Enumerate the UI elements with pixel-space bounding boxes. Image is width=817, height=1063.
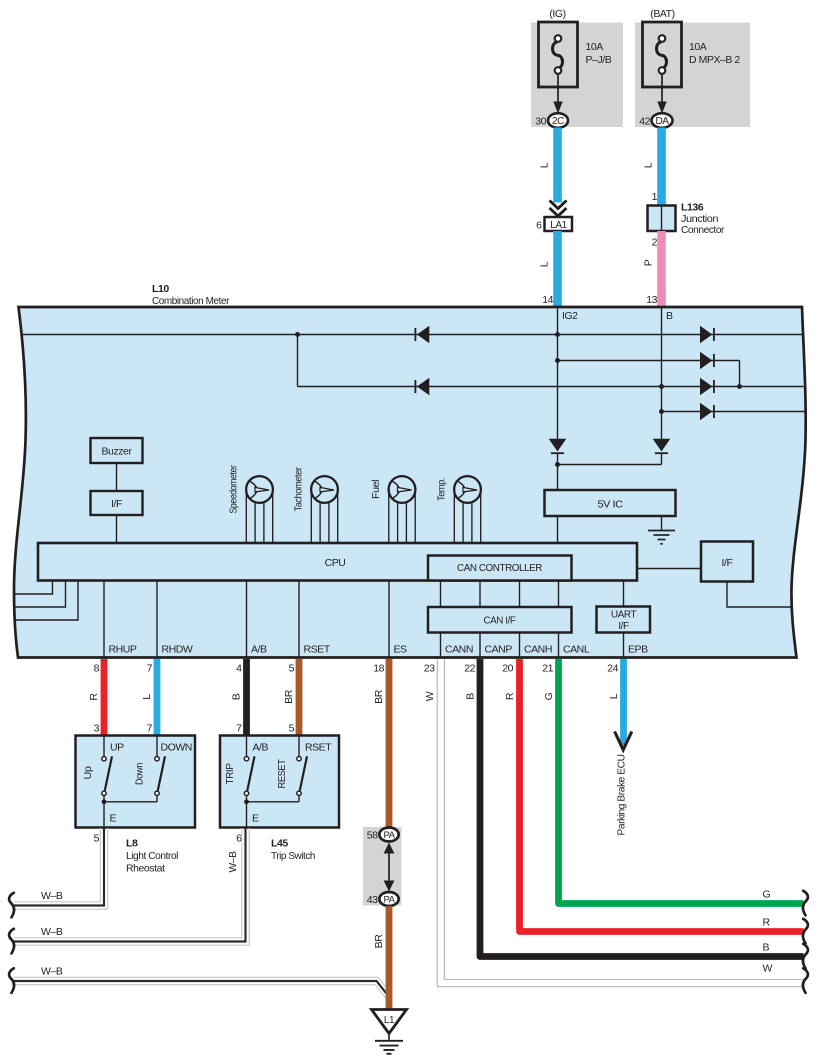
connector PA (58) oval xyxy=(379,828,398,842)
svg-text:CAN I/F: CAN I/F xyxy=(484,615,516,627)
svg-text:RESET: RESET xyxy=(276,759,288,789)
svg-text:5: 5 xyxy=(94,833,100,845)
svg-text:13: 13 xyxy=(646,294,657,306)
wire R (red) CANH to right edge xyxy=(520,659,804,932)
pin line EPB xyxy=(623,633,625,658)
wire BR (brown) PA to ground L1 xyxy=(386,906,393,1010)
node B pin line xyxy=(661,307,663,439)
wire L (blue) RHDW to L8 xyxy=(154,659,161,736)
svg-text:CPU: CPU xyxy=(325,557,346,569)
svg-text:5: 5 xyxy=(289,663,295,675)
wire W-B from L45 E to left xyxy=(14,828,242,938)
combination meter L10 body xyxy=(14,307,806,658)
svg-text:10A: 10A xyxy=(689,41,707,53)
CPU left bus wire 2 xyxy=(14,581,66,608)
svg-text:RSET: RSET xyxy=(305,742,332,754)
regulator 5V IC xyxy=(545,490,676,516)
connector 2C oval xyxy=(548,113,568,128)
switch SW3 Trip blade xyxy=(247,756,254,790)
junction row1/branch xyxy=(295,332,300,337)
svg-text:CANL: CANL xyxy=(563,644,590,656)
svg-text:E: E xyxy=(252,813,259,825)
svg-text:I/F: I/F xyxy=(111,498,122,510)
svg-text:7: 7 xyxy=(236,723,242,735)
wire fuse F2 to connector DA xyxy=(661,74,663,102)
wire W (white) CANN to right edge xyxy=(437,659,804,987)
arrow into connector DA xyxy=(657,102,666,114)
wire row 1 xyxy=(21,334,803,336)
svg-text:(IG): (IG) xyxy=(549,8,565,20)
node IG2 pin line xyxy=(557,307,559,439)
wire L (blue) from 2C to LA1 xyxy=(553,128,562,203)
diode D8 (down, B branch) xyxy=(653,439,671,452)
svg-text:W–B: W–B xyxy=(227,851,239,872)
ground point L1 triangle xyxy=(372,1010,407,1034)
continuation squiggle (W-B 2) xyxy=(9,929,14,954)
svg-text:BR: BR xyxy=(373,934,385,949)
svg-text:L8: L8 xyxy=(126,838,138,850)
L45 common wire to E xyxy=(246,796,248,829)
L8 pin UP stub xyxy=(103,736,105,757)
continuation squiggle (R) xyxy=(803,919,808,944)
svg-text:Temp.: Temp. xyxy=(437,478,448,501)
wire CPU to UART I/F xyxy=(623,581,625,607)
continuation squiggle (B) xyxy=(803,944,808,969)
svg-text:14: 14 xyxy=(542,294,553,306)
svg-text:30: 30 xyxy=(535,116,546,128)
connector DA oval xyxy=(652,113,673,128)
diode D5 (right, row 3) xyxy=(700,378,712,396)
svg-text:CANP: CANP xyxy=(485,644,513,656)
continuation squiggle (W-B 1) xyxy=(9,893,14,918)
svg-text:7: 7 xyxy=(147,663,153,675)
svg-text:L45: L45 xyxy=(271,838,288,850)
wire G (green) CANL to right edge xyxy=(559,659,804,904)
svg-text:A/B: A/B xyxy=(251,644,267,656)
pin line ES xyxy=(388,581,390,658)
CAN I/F block U3 xyxy=(428,607,572,633)
svg-text:CANN: CANN xyxy=(445,644,473,656)
svg-text:Buzzer: Buzzer xyxy=(102,446,133,458)
svg-text:2: 2 xyxy=(652,237,658,249)
svg-text:R: R xyxy=(763,917,771,929)
wire row 2 xyxy=(558,360,740,362)
svg-text:5V IC: 5V IC xyxy=(598,499,624,511)
wire row1 to row3 connector xyxy=(297,335,299,387)
ground (5V IC) xyxy=(661,516,663,530)
svg-text:PA: PA xyxy=(383,895,395,906)
wire B (black) CANP to right edge xyxy=(480,659,804,957)
svg-text:L1: L1 xyxy=(384,1015,395,1026)
pin line RSET xyxy=(298,581,300,658)
svg-text:L: L xyxy=(141,694,153,700)
continuation squiggle (W-B 3) xyxy=(9,968,14,993)
gauge M4 Temp. dial xyxy=(454,476,481,503)
wire right I/F to body edge xyxy=(727,582,793,608)
svg-text:L: L xyxy=(643,162,655,168)
diode D4 (right, row 2) xyxy=(700,352,712,370)
fuse F1 element xyxy=(553,42,563,68)
continuation squiggle (W) xyxy=(803,968,808,993)
gauge M1 Speedometer legs xyxy=(245,490,247,544)
junction block MPX-B shading (BAT) xyxy=(635,23,750,128)
svg-text:Down: Down xyxy=(134,762,146,785)
CAN controller U2 xyxy=(428,556,572,581)
chevron marks above LA1 xyxy=(550,201,567,209)
svg-text:UP: UP xyxy=(110,742,124,754)
junction block J/B shading (IG) xyxy=(531,23,623,128)
svg-text:7: 7 xyxy=(147,723,153,735)
svg-text:Tachometer: Tachometer xyxy=(294,466,305,511)
wire diode outputs join xyxy=(557,453,559,490)
svg-text:4: 4 xyxy=(236,663,242,675)
gauge M3 Fuel dial xyxy=(389,476,416,503)
L45 pin A/B stub xyxy=(246,736,248,757)
svg-text:EPB: EPB xyxy=(628,644,648,656)
svg-text:P–J/B: P–J/B xyxy=(586,54,612,66)
wire P (pink) from L136 pin 2 to meter pin 13 xyxy=(657,231,666,307)
svg-text:8: 8 xyxy=(94,663,100,675)
wire row 2 drop xyxy=(739,361,741,387)
svg-text:BR: BR xyxy=(283,689,295,704)
pin line CANL xyxy=(558,633,560,658)
svg-text:B: B xyxy=(666,310,673,322)
L8 common wire to E xyxy=(103,796,105,829)
CPU left bus wire 1 xyxy=(14,581,52,595)
svg-text:W–B: W–B xyxy=(41,890,63,902)
pin line RHUP xyxy=(103,581,105,658)
junction B/row3 xyxy=(659,384,664,389)
svg-text:B: B xyxy=(464,693,476,700)
svg-text:W–B: W–B xyxy=(41,926,63,938)
svg-text:10A: 10A xyxy=(586,41,604,53)
svg-text:I/F: I/F xyxy=(618,621,629,632)
pin line CANN xyxy=(440,633,442,658)
wire CPU to right I/F xyxy=(637,568,701,570)
pin line CANH xyxy=(519,633,521,658)
svg-text:42: 42 xyxy=(639,116,650,128)
connector PA (43) oval xyxy=(379,892,398,906)
svg-text:2C: 2C xyxy=(552,116,564,127)
gauge M3 Fuel legs xyxy=(388,490,390,544)
switch box L45 body xyxy=(220,736,339,828)
svg-text:Connector: Connector xyxy=(681,224,725,236)
junction B/row4 xyxy=(659,409,664,414)
arrow up (PA pass-through) xyxy=(384,843,395,854)
svg-text:L: L xyxy=(539,261,551,267)
svg-text:22: 22 xyxy=(464,663,475,675)
wire fuse F1 to connector 2C xyxy=(557,74,559,102)
wire R (red) RHUP to L8 xyxy=(101,659,108,736)
svg-text:L136: L136 xyxy=(681,202,704,214)
junction row2/row3 xyxy=(737,384,742,389)
svg-text:R: R xyxy=(504,692,516,700)
wires CAN controller to CAN I/F xyxy=(440,581,442,608)
CPU left bus wire 3 xyxy=(14,581,78,621)
buzzer xyxy=(91,438,143,463)
svg-text:5: 5 xyxy=(289,723,295,735)
svg-text:CAN CONTROLLER: CAN CONTROLLER xyxy=(457,562,543,574)
junction connector L136 xyxy=(648,206,676,232)
splice PA block shading xyxy=(363,827,402,906)
svg-text:G: G xyxy=(763,889,771,901)
svg-text:IG2: IG2 xyxy=(562,310,578,322)
wire B (black) A/B to L45 xyxy=(243,659,250,736)
wire L (blue) from LA1 to meter pin 14 xyxy=(553,231,562,307)
switch box L8 body xyxy=(76,736,196,828)
svg-text:I/F: I/F xyxy=(722,557,733,569)
svg-text:PA: PA xyxy=(383,830,395,841)
arrow to Parking Brake ECU xyxy=(615,732,632,750)
svg-text:Up: Up xyxy=(82,766,94,780)
pin line A/B xyxy=(246,581,248,658)
svg-text:RSET: RSET xyxy=(304,644,331,656)
wire 5V IC to CPU xyxy=(557,516,559,543)
svg-text:W: W xyxy=(424,691,436,701)
switch SW4 Reset blade xyxy=(300,756,307,790)
svg-text:6: 6 xyxy=(536,220,542,232)
svg-text:43: 43 xyxy=(367,894,378,906)
svg-text:Parking Brake ECU: Parking Brake ECU xyxy=(616,755,628,836)
ground symbol xyxy=(388,1034,390,1041)
svg-text:W: W xyxy=(763,963,773,975)
wire row 3 xyxy=(298,386,804,388)
svg-text:B: B xyxy=(763,942,770,954)
wire BR (brown) RSET to L45 xyxy=(296,659,303,736)
wire row 4 xyxy=(662,411,805,413)
svg-text:G: G xyxy=(543,692,555,700)
svg-text:3: 3 xyxy=(94,723,100,735)
svg-text:18: 18 xyxy=(373,663,384,675)
wire L (blue) from DA to L136 pin 1 xyxy=(657,128,666,206)
continuation squiggle (G) xyxy=(803,891,808,916)
svg-text:6: 6 xyxy=(236,833,242,845)
wire L (blue) EPB to Parking Brake ECU xyxy=(620,659,627,745)
interface I/F (buzzer) xyxy=(91,491,143,515)
svg-text:P: P xyxy=(643,259,655,266)
pin line RHDW xyxy=(156,581,158,658)
interface I/F (right) U5 xyxy=(701,542,753,582)
L45 pin RSET stub xyxy=(298,736,300,757)
svg-text:L10: L10 xyxy=(152,283,169,295)
svg-text:(BAT): (BAT) xyxy=(650,8,674,20)
fuse F2 element xyxy=(657,42,667,68)
UART I/F block U4 xyxy=(597,607,651,633)
svg-text:DOWN: DOWN xyxy=(161,742,192,754)
arrow down (PA pass-through) xyxy=(384,881,395,892)
svg-text:W–B: W–B xyxy=(41,966,63,978)
connector LA1 xyxy=(545,217,573,231)
gauge M2 Tachometer legs xyxy=(310,490,312,544)
fuse F2 10A D MPX-B 2 body xyxy=(643,22,682,87)
svg-text:20: 20 xyxy=(502,663,513,675)
svg-text:TRIP: TRIP xyxy=(224,763,236,784)
L8 pin DOWN stub xyxy=(156,736,158,757)
CPU block U1 xyxy=(38,543,637,581)
svg-text:RHDW: RHDW xyxy=(162,644,193,656)
svg-text:DA: DA xyxy=(656,116,670,127)
svg-text:Combination Meter: Combination Meter xyxy=(152,295,230,307)
svg-text:B: B xyxy=(231,693,243,700)
junction IG2/row1 xyxy=(555,332,560,337)
svg-text:21: 21 xyxy=(542,663,553,675)
wire W-B from L8 E to left xyxy=(14,828,100,902)
svg-text:A/B: A/B xyxy=(253,742,269,754)
svg-text:RHUP: RHUP xyxy=(109,644,137,656)
fuse F1 10A P-J/B body xyxy=(539,22,578,87)
gauge M2 Tachometer dial xyxy=(311,476,338,503)
svg-text:E: E xyxy=(110,813,117,825)
svg-text:ES: ES xyxy=(394,644,408,656)
gauge M1 Speedometer dial xyxy=(246,476,273,503)
wire W-B 3 (ground link) xyxy=(14,977,391,992)
svg-text:D MPX–B 2: D MPX–B 2 xyxy=(689,54,740,66)
svg-text:R: R xyxy=(88,693,100,701)
svg-text:58: 58 xyxy=(367,830,378,842)
switch SW2 Down blade xyxy=(158,756,165,790)
svg-text:L: L xyxy=(608,693,620,699)
pin line CANP xyxy=(479,633,481,658)
svg-text:Light Control: Light Control xyxy=(126,850,178,862)
diode D3 (right, row 1) xyxy=(700,326,712,344)
svg-text:Speedometer: Speedometer xyxy=(229,465,240,514)
wire BR (brown) ES to PA xyxy=(386,659,393,828)
switch SW1 Up blade xyxy=(105,756,112,790)
wire buzzer to I/F xyxy=(116,463,118,491)
diode D6 (right, row 4) xyxy=(700,403,712,421)
diode D1 (left, row 1) xyxy=(417,326,429,344)
gauge M4 Temp. legs xyxy=(453,490,455,544)
svg-text:24: 24 xyxy=(607,663,618,675)
svg-text:Trip Switch: Trip Switch xyxy=(271,850,316,862)
diode D7 (down, IG2 branch) xyxy=(549,439,567,452)
svg-text:Fuel: Fuel xyxy=(371,480,382,499)
wire I/F to CPU xyxy=(116,515,118,543)
svg-text:BR: BR xyxy=(373,689,385,704)
svg-text:CANH: CANH xyxy=(524,644,552,656)
diode D2 (left, row 3) xyxy=(417,378,429,396)
svg-text:1: 1 xyxy=(652,191,658,203)
svg-text:L: L xyxy=(539,162,551,168)
svg-text:UART: UART xyxy=(611,610,637,621)
svg-text:23: 23 xyxy=(424,663,435,675)
arrow into connector 2C xyxy=(553,102,562,114)
svg-text:LA1: LA1 xyxy=(550,220,567,231)
junction IG2/row2 xyxy=(555,358,560,363)
svg-text:Rheostat: Rheostat xyxy=(126,863,165,875)
